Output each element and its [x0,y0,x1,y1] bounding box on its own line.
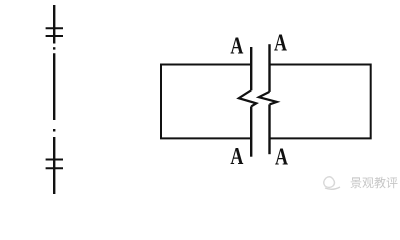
watermark logo [324,177,340,190]
tick mark 3 (lower) [46,159,63,161]
cutting-plane line: dot 1 [53,47,55,49]
cutting-plane line: dot 2 [53,129,55,132]
cutting-plane line: long dash segment [53,53,55,120]
break line 2 upper segment [268,44,270,92]
break line 1 lower segment [250,106,252,156]
svg-text:A: A [230,144,243,170]
break line 2 lower segment [268,104,270,154]
tick mark 2 (upper) [46,35,63,37]
break line 1 zigzag [239,90,256,106]
svg-text:景观教评: 景观教评 [350,175,398,190]
svg-text:A: A [274,31,287,57]
svg-text:A: A [230,34,243,60]
break line 2 zigzag [259,92,277,105]
cutting-plane line: upper solid segment [53,5,55,44]
rectangle left portion (open at break) [161,65,251,139]
rectangle right portion (open at break) [270,65,371,139]
tick mark 1 (upper) [46,27,63,29]
cutting-plane line: lower solid segment [53,137,55,194]
tick mark 4 (lower) [46,167,63,169]
svg-text:A: A [275,145,288,171]
break line 1 upper segment [250,47,252,90]
